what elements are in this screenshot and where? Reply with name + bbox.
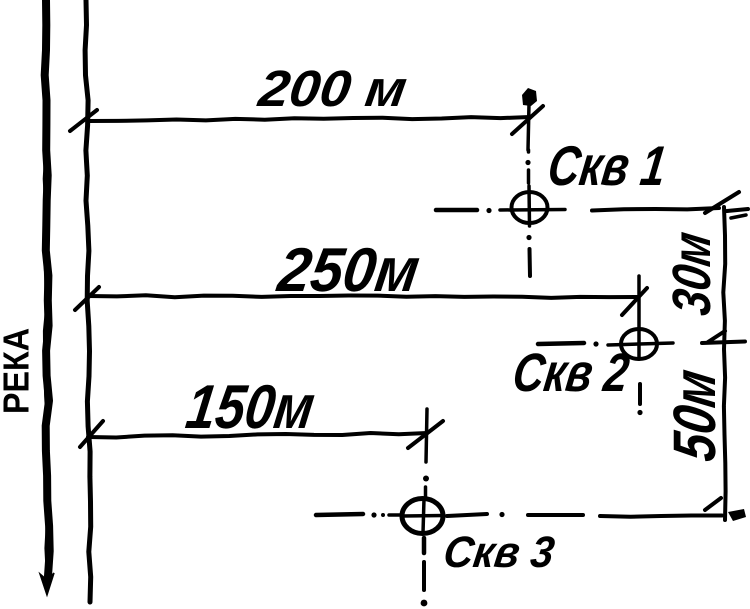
tick at river end of 200м (70, 110, 97, 131)
svg-text:Скв 1: Скв 1 (544, 134, 670, 197)
tick at Скв2 end of 250м (622, 288, 647, 315)
tick at river end of 250м (75, 287, 99, 310)
svg-text:50м: 50м (660, 365, 728, 465)
label 150м (182, 373, 319, 442)
svg-text:Скв 3: Скв 3 (441, 528, 558, 577)
river left bank line (45, 0, 50, 576)
label Скв 2 (509, 343, 632, 403)
svg-text:РЕКА: РЕКА (0, 328, 37, 414)
line from Скв1 to right dimension line (592, 208, 719, 211)
borehole Скв2 symbol (621, 329, 657, 359)
label 250м (273, 236, 424, 305)
borehole Скв1 symbol (512, 192, 548, 223)
svg-text:30м: 30м (662, 228, 722, 318)
right vertical dimension line (723, 207, 725, 520)
dash-dot line from Скв3 to right dimension line (528, 513, 583, 517)
dimension line 250м (88, 295, 638, 298)
tick at top of right dimension line (705, 192, 739, 213)
tick at bottom of right dimension line (705, 498, 721, 510)
tick at Скв3 end of 150м (408, 421, 443, 448)
svg-text:200 м: 200 м (254, 60, 410, 117)
extension line above Скв1 with ink blob (528, 104, 529, 150)
river flow arrowhead (40, 573, 54, 595)
label 200 м (254, 60, 410, 117)
dimension line 200м (88, 117, 530, 121)
svg-text:250м: 250м (273, 236, 424, 305)
river right bank line (85, 0, 91, 602)
label Скв 1 (544, 134, 670, 197)
tick at Скв2 level of right dimension line (702, 342, 745, 344)
svg-text:Скв 2: Скв 2 (509, 343, 632, 403)
borehole Скв3 symbol (402, 499, 443, 534)
dimension line 150м (88, 433, 427, 438)
label Река (0, 328, 37, 414)
label 50м (660, 365, 728, 465)
tick at Скв1 end of 200м (512, 106, 543, 134)
label 30м (662, 228, 722, 318)
svg-text:150м: 150м (182, 373, 319, 442)
label Скв 3 (441, 528, 558, 577)
tick at river end of 150м (80, 421, 103, 447)
